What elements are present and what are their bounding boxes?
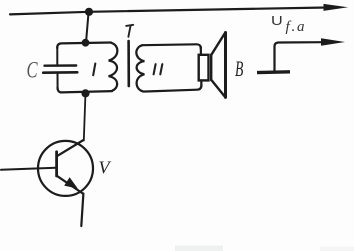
wire: output line with corner	[275, 42, 324, 70]
wire: tank top side	[57, 43, 111, 49]
wire: from top line junction down to tank	[86, 13, 89, 43]
node: tank bottom junction	[81, 89, 89, 97]
transistor V: envelope circle	[38, 141, 93, 196]
transistor V: base bar	[55, 152, 58, 176]
wire: emitter lead down	[81, 194, 83, 227]
svg-text:V: V	[99, 158, 112, 178]
wire: secondary loop top side	[142, 44, 201, 48]
arrowhead: top line right output	[324, 4, 349, 11]
speaker B: driver box	[199, 55, 209, 81]
arrowhead: output line arrow	[321, 38, 345, 46]
inductor I: transformer primary winding (right side of tank)	[109, 43, 118, 91]
transistor V: collector stroke	[58, 140, 84, 156]
faint scan smudge bottom centre	[175, 246, 223, 251]
label T	[126, 25, 133, 37]
svg-text:B: B	[235, 57, 243, 81]
wire: top supply line	[10, 8, 327, 15]
wire: secondary loop bottom side	[142, 85, 201, 92]
svg-text:f.a: f.a	[286, 19, 307, 35]
capacitor C: bottom lead	[57, 74, 59, 90]
svg-text:U: U	[271, 14, 283, 28]
label I (primary winding)	[93, 64, 95, 76]
node: junction of top line and tank feed	[85, 8, 93, 16]
wire: base lead	[1, 168, 56, 170]
svg-text:C: C	[27, 58, 39, 83]
transistor V: emitter stroke	[57, 176, 83, 194]
wire: collector lead up to tank	[84, 96, 86, 141]
ground: chassis bar	[257, 70, 290, 74]
label II (secondary winding)	[154, 64, 163, 74]
capacitor C: bottom plate	[43, 71, 77, 74]
capacitor C: top plate	[45, 64, 77, 67]
inductor II: transformer secondary winding	[136, 45, 144, 91]
wire: secondary loop right side	[200, 47, 203, 86]
transformer T: core	[127, 41, 130, 86]
node: tank top junction	[82, 39, 90, 47]
speaker B: cone mouth edge	[224, 33, 227, 98]
transistor V: emitter arrow	[64, 177, 78, 188]
faint scan smudge bottom right	[320, 247, 354, 251]
wire: tank bottom side	[58, 88, 113, 93]
speaker B: cone	[211, 34, 224, 97]
capacitor C: top lead	[56, 47, 58, 65]
